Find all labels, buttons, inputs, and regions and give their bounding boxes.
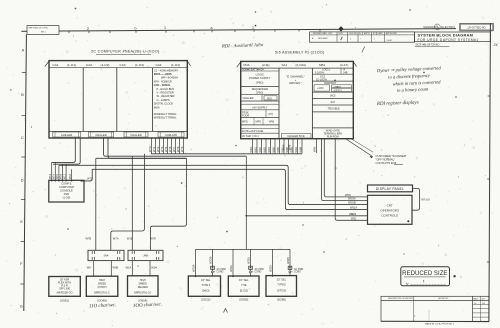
top border zone labels [87,26,254,31]
top border line of sheet [21,29,456,32]
svg-text:1: 1 [350,39,352,41]
svg-text:2C SHF ( OC-): 2C SHF ( OC-) [242,134,259,138]
svg-text:W7O: W7O [148,146,152,152]
svg-text:CA3: CA3 [120,63,126,67]
+6V supply cell [241,104,279,110]
svg-text:Dymer ⇒ pulley voltage convert: Dymer ⇒ pulley voltage converted [376,65,442,73]
computer bay CA4 equipment list [154,68,179,119]
svg-text:REV MATL: REV MATL [318,37,329,40]
svg-text:G - LAMPS: G - LAMPS [157,98,170,102]
svg-text:ADM#N BATT##-O#: ADM#N BATT##-O# [242,69,264,72]
svg-text:CONSOLE: CONSOLE [60,188,73,192]
svg-text:QTY: QTY [481,298,486,300]
leader to customer scanner contacts [346,139,373,158]
wire stub W6B [298,139,302,154]
svg-text:REVISED MATL LIST: REVISED MATL LIST [313,32,333,35]
title block [415,32,491,42]
svg-text:CORD: CORD [217,271,224,273]
wire stub W65 [271,139,275,154]
svg-text:BRPE/3TAL-1O: BRPE/3TAL-1O [134,292,151,295]
wire trunk to teletypes [245,156,247,249]
svg-text:APPR: APPR [364,32,370,35]
PD assembly cabinet U2100 outline [237,61,357,138]
svg-text:KSR: KSR [64,192,69,196]
svg-text:W6#: W6# [313,146,317,152]
svg-text:W31B: W31B [248,257,251,264]
svg-text:CA2: CA2 [86,63,92,67]
wire W75 from console [81,169,93,182]
svg-text:CHART: CHART [334,85,342,88]
svg-text:W51A: W51A [350,206,357,210]
svg-text:BRPE/3TAL-C: BRPE/3TAL-C [94,292,110,295]
operator console U101 [49,180,84,202]
svg-text:(1-O5): (1-O5) [63,196,71,200]
svg-text:SH 1: SH 1 [41,32,46,34]
svg-text:W77: W77 [172,146,176,152]
svg-text:2C COMPUTER #NEA(2B)-U-(IIOO): 2C COMPUTER #NEA(2B)-U-(IIOO) [91,49,160,53]
svg-text:(2-IE): (2-IE) [262,63,270,67]
OC1 5-180% 24B cell [312,68,353,75]
wire stub W6O [249,139,253,154]
svg-text:W63: W63 [262,147,266,153]
wire W9B [111,261,118,276]
teletype KSR flexowriter (0551) [49,277,81,297]
wire W1B to jack J4B [127,156,133,250]
svg-text:15" SEL: 15" SEL [201,278,211,282]
wire W51B [246,212,367,216]
svg-text:CHILLER: CHILLER [130,133,141,137]
svg-text:W32A: W32A [270,265,273,272]
svg-text:GENERAL: GENERAL [423,25,437,29]
svg-text:W17: W17 [63,173,66,179]
teletype SEL type5 (5085) A [228,276,259,296]
svg-text:W3OA: W3OA [193,264,196,272]
AO cell [312,94,353,98]
wire stub W72 [156,137,160,153]
svg-text:15" SEL: 15" SEL [239,278,249,282]
svg-text:(1-O3): (1-O3) [135,63,144,67]
wire W31B with AC plug [248,249,265,276]
svg-text:CHILLER: CHILLER [61,133,72,137]
small dot top area [255,25,257,27]
svg-text:T 5E: T 5E [241,283,247,287]
svg-text:CHG NO: CHG NO [349,33,357,35]
svg-text:CA1: CA1 [53,63,59,67]
svg-text:/: / [360,39,361,41]
svg-text:(5O85): (5O85) [277,297,286,301]
TRSK / P7 cells [241,110,279,118]
svg-text:to a discrete frequency: to a discrete frequency [388,73,431,80]
svg-text:A: A [22,49,25,53]
svg-text:1: 1 [164,26,166,30]
svg-text:(2-A7): (2-A7) [340,63,348,67]
svg-text:1OO char/sec.: 1OO char/sec. [133,302,162,309]
svg-text:SA1: SA1 [282,63,288,67]
parts list table [381,296,489,321]
svg-text:which in turn is converted: which in turn is converted [392,79,441,86]
svg-text:(AO): (AO) [330,94,335,97]
svg-text:POWER SUPPLY: POWER SUPPLY [249,76,271,80]
computer footer connector CHILLER bay3 [124,132,148,137]
GE logo [423,24,455,30]
svg-text:(P8O): (P8O) [256,81,263,85]
svg-text:CONTROLS: CONTROLS [381,214,398,218]
wire stub W7O [148,137,152,153]
svg-text:"OFF NORMAL": "OFF NORMAL" [376,157,396,161]
svg-text:B###——6O45: B###——6O45 [154,72,172,76]
svg-text:WR—6O45/64: WR—6O45/64 [161,76,178,80]
computer footer connector CHILLER bay1 [53,132,81,137]
svg-text:15" SEL: 15" SEL [277,278,287,282]
drawing number box (top right) [460,23,494,30]
revision check mark [341,37,343,40]
svg-text:MATL: MATL [473,297,478,300]
wire W51 drop [335,139,367,221]
wire W32B with AC plug [287,249,304,276]
right border ticks [487,96,491,262]
wire stub W69 [289,139,293,154]
svg-text:DISPLAY PANEL: DISPLAY PANEL [376,187,404,191]
svg-text:AM/FD/ZR-OO: AM/FD/ZR-OO [56,292,72,295]
svg-text:SYSTEM BLOCK DIAGRAM: SYSTEM BLOCK DIAGRAM [418,33,474,38]
svg-text:REDUCED SIZE: REDUCED SIZE [402,270,447,277]
svg-text:2-6-67: 2-6-67 [387,40,394,42]
MPO MPO APB cells [241,118,279,125]
wire stub W6A [294,139,298,154]
svg-text:V - REGISTER: V - REGISTER [157,91,174,95]
SCI cell [312,100,353,105]
svg-text:APPROVED: APPROVED [386,32,398,35]
svg-text:(2-O2A): (2-O2A) [296,63,307,67]
jack box J4B [128,250,163,260]
wire W7-19 display link [412,188,430,210]
svg-text:SCF #B-2473I-9O: SCF #B-2473I-9O [416,42,441,46]
svg-text:C: C [21,136,24,140]
caret mark [224,309,228,313]
svg-text:(O551): (O551) [60,298,69,302]
svg-text:W5OA: W5OA [348,197,356,201]
wire stub W74 [164,137,168,153]
wire console stub W18 [69,169,73,181]
wire stub W71 [152,137,156,153]
wire W1A [126,261,133,276]
svg-text:SEQUENCER: SEQUENCER [252,87,269,91]
svg-text:B: B [21,93,24,97]
svg-text:DIGITAL CLOCK: DIGITAL CLOCK [154,102,174,106]
svg-text:W61: W61 [253,147,257,153]
node wire blobs at teletype tops [195,275,274,277]
left border zone letters [20,49,25,309]
wire stub W66 [276,139,280,154]
left border zone ticks [20,73,26,285]
svg-text:E: E [20,220,23,224]
svg-text:5/6 ASSEMBLY #1 (21OO): 5/6 ASSEMBLY #1 (21OO) [275,50,324,54]
node junction W51B tap [245,215,247,217]
display panel label box [368,185,413,192]
svg-text:ELECTRIC: ELECTRIC [441,25,455,29]
svg-text:LP-O77I5C-9O: LP-O77I5C-9O [468,26,486,30]
svg-text:W15: W15 [56,173,59,179]
bus B lower [96,157,187,159]
svg-text:DESCRIPTION OF GROUPS: DESCRIPTION OF GROUPS [388,298,414,300]
console connection stubs [49,162,67,181]
svg-text:W78: W78 [150,237,156,241]
svg-text:MDA: MDA [154,105,160,109]
svg-text:CUSTOMER "SCANNER": CUSTOMER "SCANNER" [376,154,407,158]
wire bay1 chiller drop right [53,137,80,164]
svg-text:(OO48): (OO48) [97,298,107,302]
svg-text:+6V SUPPLY: +6V SUPPLY [252,105,268,109]
svg-text:W3OB: W3OB [210,256,213,264]
svg-text:CHILLER B FE: CHILLER B FE [287,134,305,138]
svg-text:OPERATORS: OPERATORS [380,209,399,213]
svg-text:ACT#/+ACP CAGE: ACT#/+ACP CAGE [242,130,264,133]
svg-text:DATE: DATE [378,32,384,35]
svg-text:SCI: SCI [331,100,336,104]
svg-text:W13: W13 [49,173,52,179]
svg-text:CONTACTS EO6: CONTACTS EO6 [376,161,397,165]
svg-text:C1 - 4O96 MEMORY: C1 - 4O96 MEMORY [154,68,179,72]
svg-text:F: F [20,262,23,266]
wire bay2 drop to bus A [104,137,247,156]
bus under computer cabinet [151,153,302,155]
trouble cell [312,107,353,112]
wire stub W63 [262,139,266,154]
svg-text:W - REGISTER: W - REGISTER [157,94,175,98]
svg-text:W31A: W31A [230,265,233,272]
PD footer cell chiller B [282,134,312,138]
svg-text:(1-O2): (1-O2) [101,63,110,67]
svg-text:W65: W65 [271,147,275,153]
svg-text:W79: W79 [180,146,184,152]
svg-text:/: / [374,39,375,41]
handwritten note pulley voltage [376,65,443,93]
wire stub W67 [280,139,284,154]
right border line of sheet [489,23,491,321]
svg-text:b: b [135,27,137,31]
wire W32A [270,249,273,276]
svg-text:24B: 24B [343,72,348,75]
svg-text:DRIVES ": DRIVES " [289,81,302,85]
fold mark diamond on top border [338,26,343,31]
corner reference box (sheet locator, top-left) [27,26,59,35]
svg-text:W71: W71 [152,146,156,152]
svg-text:(57O3): (57O3) [277,288,286,292]
svg-text:APB: APB [269,120,274,123]
sequencer P60 [241,87,279,95]
computer cabinet title (1100) [91,49,160,53]
wire bay2 drop to bus B [108,137,186,158]
wire W78 to jack J4B [150,158,186,250]
revision table [310,32,415,42]
svg-text:W6A: W6A [294,147,298,153]
svg-text:CHILLER: CHILLER [243,96,254,100]
svg-text:(P7): (P7) [269,113,274,116]
svg-text:W16: W16 [60,173,63,179]
PD assembly header labels [244,63,349,67]
svg-text:+1OO: +1OO [317,87,324,90]
svg-text:SUPPLY: SUPPLY [334,90,343,92]
svg-text:TYPE 5: TYPE 5 [201,283,210,287]
svg-text:11O char/sec.: 11O char/sec. [89,303,117,309]
svg-text:PDA: PDA [244,63,250,67]
svg-text:OFF LINE: OFF LINE [59,288,70,291]
svg-text:PUNCH: PUNCH [98,286,107,289]
wire W7B to jack J4A [86,158,96,250]
svg-text:W5O: W5O [345,193,351,197]
computer title underline [96,53,151,55]
wire stub W64 [267,139,271,154]
wire stub W73 [160,137,164,153]
svg-text:(1-O1): (1-O1) [67,63,76,67]
wire W7A to jack J4A [111,154,145,251]
svg-text:W7B: W7B [86,237,92,241]
svg-text:W72: W72 [156,146,160,152]
high speed reader (0554) [128,276,159,297]
svg-text:W32B: W32B [287,257,290,264]
svg-text:TROUBLE: TROUBLE [328,107,341,111]
bus D run to W51A [92,169,367,209]
wire W31A [230,249,233,276]
svg-text:MPO: MPO [256,120,262,123]
svg-text:A: A [312,37,314,40]
E-channel drives label [286,74,305,85]
wire stub W6x under PD [313,139,317,153]
svg-text:Oz: Oz [474,303,476,305]
svg-text:CA4: CA4 [156,63,162,67]
computer bay header labels CA1-CA4 [53,63,180,67]
computer cabinet U1100 outline [45,61,191,139]
svg-text:COMP &: COMP & [61,182,71,186]
ACT ACP cage cell [241,129,279,134]
wind gate terminal board cell [312,128,353,138]
svg-text:(5O21): (5O21) [201,297,210,301]
left border line of sheet [24,34,27,311]
svg-text:W49: W49 [282,144,286,150]
svg-text:CH#LL#R: CH#LL#R [165,133,177,137]
svg-text:GROUP NO: GROUP NO [438,298,449,300]
svg-text:W1#: W1# [151,266,157,270]
wire stub W78 [176,137,180,153]
svg-text:1: 1 [252,26,254,30]
stamp reduced size [401,267,450,286]
svg-text:to a binary count: to a binary count [397,86,429,92]
svg-text:TOOR: TOOR [242,114,249,117]
svg-text:RDI - Auxiliar#l Julio: RDI - Auxiliar#l Julio [221,43,264,49]
wire stub W76 [168,137,172,153]
svg-text:5 18O%: 5 18O% [315,72,325,75]
svg-text:TYPES: TYPES [277,283,286,287]
svg-text:(1-O4): (1-O4) [171,63,180,67]
OC2 10-180% cell [312,76,353,82]
title block drawing ref line [415,42,450,46]
temperature chart cell [312,82,353,92]
svg-text:W18: W18 [69,173,72,179]
svg-text:[5,O2]: [5,O2] [240,289,248,293]
wire stub W62 [258,139,262,154]
svg-text:LOG - #####L: LOG - #####L [154,83,171,87]
svg-text:MPO: MPO [242,120,248,123]
svg-text:READER: READER [138,286,148,289]
svg-text:W14: W14 [53,173,56,179]
svg-text:LOGIC: LOGIC [256,72,264,76]
computer footer connector CHILLER bay2 [89,132,114,137]
underline E06 [394,164,403,166]
svg-text:W/RESULT TRMNL: W/RESULT TRMNL [154,115,177,119]
svg-text:W/RESULT TRMNL: W/RESULT TRMNL [154,112,177,116]
svg-text:W64: W64 [267,147,271,153]
svg-text:§: § [423,279,425,283]
svg-text:W7-1/9: W7-1/9 [421,198,430,202]
svg-text:(5O85): (5O85) [239,297,248,301]
svg-text:W51: W51 [351,216,357,220]
svg-text:MADE IN U.S.A. PR SH NO: MADE IN U.S.A. PR SH NO 1 [425,323,455,326]
svg-text:W66: W66 [276,147,280,153]
svg-text:W6O: W6O [249,147,253,153]
svg-text:CORD: CORD [255,271,262,273]
svg-text:REF DWG LP-O77I5: REF DWG LP-O77I5 [29,28,49,30]
computer footer connector CHILLER bay4 [158,132,184,137]
wire W3OA [193,249,196,276]
svg-text:W9: W9 [87,265,91,269]
teletype SEL type5 (5085) B [266,276,297,297]
jack box J4A [88,250,124,260]
wire stub W77 [172,137,176,153]
svg-text:→W75: →W75 [85,177,93,181]
CRT operators controls box [368,195,413,224]
svg-text:W1A: W1A [126,266,132,270]
svg-text:XPA - 4O96/CR: XPA - 4O96/CR [154,79,172,83]
svg-text:ROI: ROI [267,96,272,100]
chiller / ROI cells [241,95,279,101]
svg-text:CRT: CRT [387,204,393,208]
handwritten slash mark [362,47,365,53]
svg-text:(O554): (O554) [138,298,147,302]
svg-text:(P6O): (P6O) [256,91,263,95]
svg-text:D: D [21,179,24,183]
wire stub W61 [253,139,257,154]
svg-text:W73: W73 [160,146,164,152]
svg-text:G: G [20,305,23,309]
svg-text:W74: W74 [164,146,168,152]
wire W1C [150,261,157,276]
wire bay1 chiller drop left [52,137,76,162]
top border zone ticks [69,29,320,33]
note customer scanner contacts [376,154,407,165]
svg-text:CORD: CORD [294,271,301,273]
teletype SEL type5 (5021) [188,276,220,296]
wire W3OB with AC plug [210,249,227,276]
svg-text:COMPUTER: COMPUTER [59,185,74,189]
svg-text:24: 24 [493,43,498,47]
svg-text:W5OB: W5OB [348,201,356,205]
svg-text:-J4A-: -J4A- [103,254,109,258]
svg-text:MB1: MB1 [319,63,326,67]
wire W50A drop [322,139,368,201]
wire W50 drop [324,139,367,197]
svg-text:W7A: W7A [113,237,119,241]
svg-text:W62: W62 [258,147,262,153]
svg-text:2: 2 [87,27,89,31]
bus E long run to W50B [59,165,368,204]
svg-text:CHILLER: CHILLER [95,133,106,137]
wire stub W68 [285,139,289,154]
svg-text:W1B: W1B [127,237,133,241]
logic power supply P80 [241,72,279,86]
svg-text:FOR URGE DUPONT SYSTEM#1: FOR URGE DUPONT SYSTEM#1 [418,38,479,42]
svg-text:-J4B-: -J4B- [142,254,148,258]
bus to teletypes [196,248,291,250]
